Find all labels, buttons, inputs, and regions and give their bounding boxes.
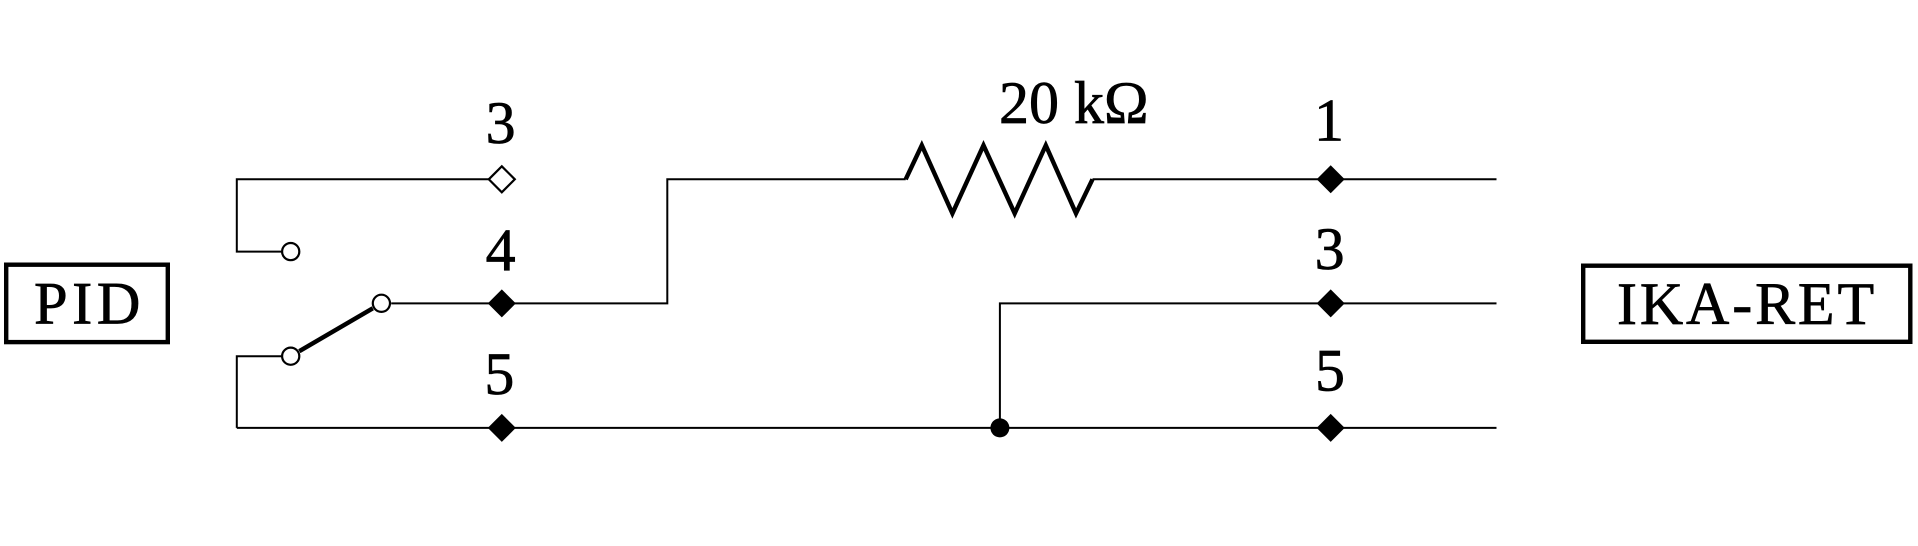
svg-text:PID: PID [34, 271, 145, 338]
svg-text:IKA-RET: IKA-RET [1617, 271, 1877, 337]
svg-text:1: 1 [1314, 88, 1344, 154]
svg-text:4: 4 [486, 217, 516, 283]
svg-text:3: 3 [1315, 216, 1345, 282]
svg-text:3: 3 [486, 90, 516, 156]
svg-text:5: 5 [484, 341, 514, 407]
svg-text:20 kΩ: 20 kΩ [999, 70, 1149, 136]
svg-text:5: 5 [1315, 338, 1345, 404]
